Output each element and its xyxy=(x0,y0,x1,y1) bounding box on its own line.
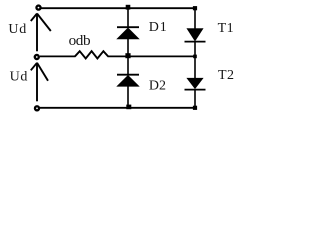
svg-text:Ud: Ud xyxy=(10,69,29,84)
node junction T middle xyxy=(193,55,197,59)
svg-text:odb: odb xyxy=(69,32,91,49)
wire bottom rail xyxy=(40,107,195,109)
svg-text:T2: T2 xyxy=(218,68,234,83)
node junction D top xyxy=(126,5,131,10)
wire middle rail left segment xyxy=(40,55,76,57)
wire D column lower xyxy=(127,86,129,108)
thyristor T2 xyxy=(185,78,206,89)
resistor odb xyxy=(75,51,108,58)
wire top rail xyxy=(41,7,196,9)
thyristor T1 xyxy=(185,29,206,42)
node junction D middle xyxy=(125,53,130,58)
node corner T top xyxy=(193,6,197,10)
wire T column upper xyxy=(194,8,196,29)
node terminal top-left xyxy=(36,6,40,10)
diode D2 xyxy=(117,75,139,87)
voltage arrow Ud upper xyxy=(31,14,51,52)
node terminal middle-left xyxy=(35,55,39,59)
svg-text:D1: D1 xyxy=(149,20,168,35)
svg-text:T1: T1 xyxy=(218,21,235,36)
node corner T bottom xyxy=(193,106,197,110)
wire D column middle xyxy=(127,39,129,75)
svg-text:D2: D2 xyxy=(149,78,166,93)
svg-text:Ud: Ud xyxy=(8,22,27,37)
node junction D bottom xyxy=(126,105,131,110)
voltage arrow Ud lower xyxy=(31,63,48,102)
wire T column middle xyxy=(194,42,196,79)
wire D column upper xyxy=(127,8,129,26)
wire T column lower xyxy=(194,90,196,108)
node terminal bottom-left xyxy=(35,106,39,110)
wire middle rail right segment xyxy=(108,55,196,57)
diode D1 xyxy=(117,27,139,39)
